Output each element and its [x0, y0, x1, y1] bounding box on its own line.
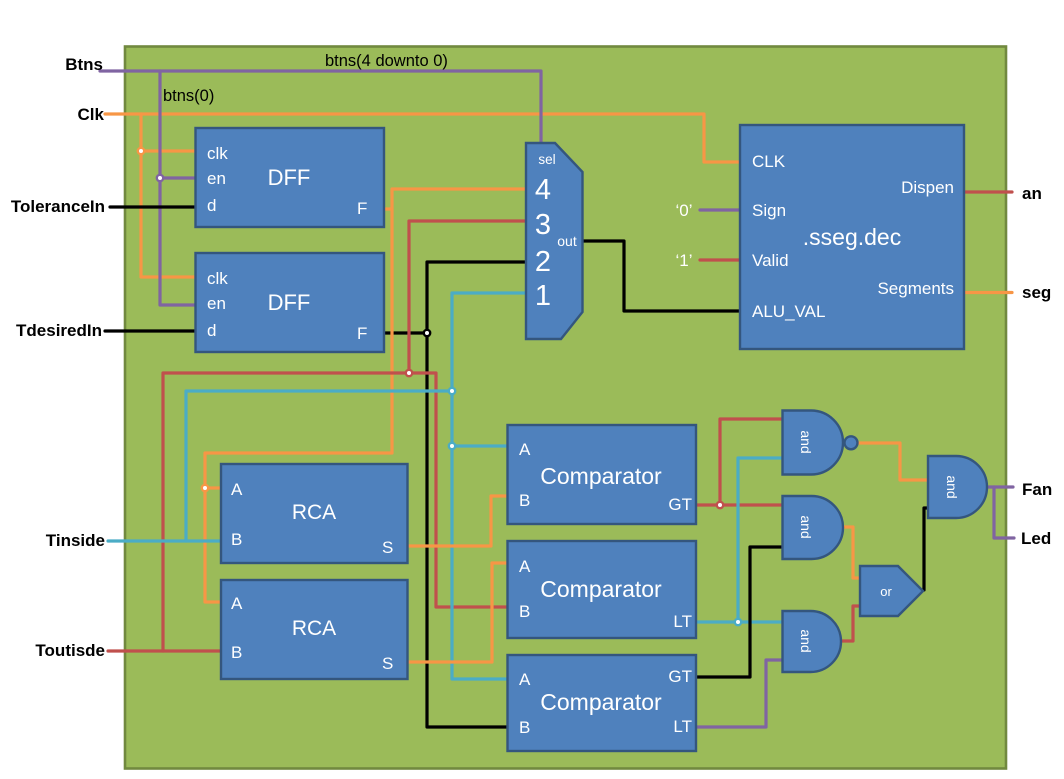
svg-text:Sign: Sign	[752, 201, 786, 220]
svg-text:S: S	[382, 654, 393, 673]
svg-text:btns(0): btns(0)	[163, 87, 214, 105]
svg-text:and: and	[798, 629, 814, 652]
or gate G4	[860, 566, 923, 616]
node junction comp2-lt	[735, 619, 741, 625]
svg-text:and: and	[798, 515, 814, 538]
svg-text:3: 3	[535, 209, 551, 241]
wire Toutisde net to RCA2.B, mux(3), Comparator2.B (red)	[108, 221, 526, 651]
node junction tinside-mux1	[449, 388, 455, 394]
svg-text:ToleranceIn: ToleranceIn	[11, 197, 105, 216]
svg-text:B: B	[231, 530, 242, 549]
node junction comp1-gt	[717, 502, 723, 508]
svg-text:LT: LT	[673, 717, 692, 736]
svg-text:Led: Led	[1021, 529, 1051, 548]
DFF U1	[196, 128, 385, 227]
wire ToleranceIn net (black)	[110, 205, 196, 208]
svg-text:GT: GT	[668, 495, 692, 514]
wire DFF1.F to mux(4) and RCA A inputs (orange)	[205, 189, 526, 602]
svg-text:Tinside: Tinside	[46, 531, 105, 550]
svg-text:GT: GT	[668, 667, 692, 686]
svg-text:Valid: Valid	[752, 251, 789, 270]
Comparator U8	[508, 541, 697, 638]
node junction en-dff1	[157, 175, 163, 181]
svg-text:d: d	[207, 321, 216, 340]
svg-text:Clk: Clk	[78, 105, 105, 124]
wire DFF2.F to mux(2) and Comparator3.B (black)	[384, 262, 526, 727]
svg-text:Comparator: Comparator	[540, 576, 662, 602]
svg-text:4: 4	[535, 174, 551, 206]
DFF U2	[196, 253, 385, 352]
and gate G2	[783, 496, 844, 559]
svg-text:1: 1	[535, 280, 551, 312]
and gate G3	[783, 611, 841, 672]
svg-text:Comparator: Comparator	[540, 463, 662, 489]
svg-text:A: A	[231, 480, 243, 499]
background panel	[125, 47, 1006, 769]
wire AND4 output to Fan and Led (purple)	[986, 487, 1014, 538]
svg-text:A: A	[519, 557, 531, 576]
svg-text:Segments: Segments	[877, 279, 954, 298]
svg-text:CLK: CLK	[752, 152, 786, 171]
wire '1' to Valid (red)	[700, 258, 740, 261]
svg-text:S: S	[382, 538, 393, 557]
svg-text:Comparator: Comparator	[540, 689, 662, 715]
wire OR output to AND4 (black)	[924, 508, 928, 590]
svg-text:or: or	[880, 584, 892, 599]
wire '0' to Sign (purple)	[700, 208, 740, 211]
svg-text:btns(4 downto 0): btns(4 downto 0)	[325, 52, 448, 70]
wire Btns net (purple)	[100, 71, 541, 305]
svg-text:‘1’: ‘1’	[675, 251, 692, 270]
RCA U6	[221, 580, 408, 679]
svg-text:en: en	[207, 169, 226, 188]
wire Comparator3.GT to AND2 (black)	[696, 547, 783, 677]
Comparator U9	[508, 655, 697, 751]
svg-text:clk: clk	[207, 269, 228, 288]
node junction comp1-a	[449, 443, 455, 449]
wire Tinside net to RCA1.B, mux(1), Comparator1.A, Comparator3.A (cyan)	[108, 293, 526, 679]
node junction clk-dff1	[138, 148, 144, 154]
wire AND3 output to OR (red)	[841, 606, 860, 641]
svg-text:DFF: DFF	[268, 165, 311, 190]
svg-text:Dispen: Dispen	[901, 178, 954, 197]
svg-text:DFF: DFF	[268, 290, 311, 315]
node junction rca1-a	[202, 485, 208, 491]
node junction toutisde-mux3	[406, 370, 412, 376]
wire NAND output to AND4 (orange)	[859, 443, 928, 480]
svg-text:F: F	[357, 199, 367, 218]
svg-text:d: d	[207, 196, 216, 215]
wire Comparator3.LT to AND3 (purple)	[696, 660, 783, 727]
RCA U5	[221, 464, 408, 563]
and gate G5	[928, 456, 987, 518]
svg-text:B: B	[231, 643, 242, 662]
svg-text:LT: LT	[673, 612, 692, 631]
svg-text:Fan: Fan	[1022, 480, 1052, 499]
svg-text:B: B	[519, 718, 530, 737]
svg-text:and: and	[798, 430, 814, 453]
svg-text:en: en	[207, 294, 226, 313]
svg-text:clk: clk	[207, 144, 228, 163]
svg-text:A: A	[231, 594, 243, 613]
svg-text:RCA: RCA	[292, 501, 336, 524]
wire mux out to ALU_VAL (black)	[583, 241, 740, 311]
svg-text:A: A	[519, 670, 531, 689]
svg-text:.sseg.dec: .sseg.dec	[803, 224, 901, 250]
svg-text:Toutisde: Toutisde	[35, 641, 105, 660]
node junction dff2-f	[424, 330, 430, 336]
svg-text:an: an	[1022, 184, 1042, 203]
svg-text:A: A	[519, 440, 531, 459]
svg-text:Btns: Btns	[65, 55, 103, 74]
Comparator U7	[508, 425, 697, 524]
wire Dispen to an (red)	[963, 190, 1012, 193]
svg-text:F: F	[357, 324, 367, 343]
svg-text:out: out	[557, 233, 577, 249]
wire AND2 output to OR (orange)	[843, 527, 860, 578]
svg-text:RCA: RCA	[292, 617, 336, 640]
svg-text:sel: sel	[538, 152, 555, 167]
svg-text:B: B	[519, 491, 530, 510]
svg-text:seg: seg	[1022, 283, 1051, 302]
wire TdesiredIn net (black)	[105, 329, 196, 332]
wire RCA2.S to Comparator2.A (orange)	[408, 563, 508, 662]
wire Segments to seg (orange)	[963, 291, 1012, 294]
nand gate G1	[783, 411, 858, 475]
wire Comparator1.GT to NAND and AND2 (red)	[696, 419, 783, 505]
svg-text:‘0’: ‘0’	[675, 201, 692, 220]
svg-text:2: 2	[535, 246, 551, 278]
svg-text:B: B	[519, 602, 530, 621]
wire Comparator2.LT to NAND and AND3 (cyan)	[696, 458, 783, 622]
svg-text:ALU_VAL: ALU_VAL	[752, 302, 825, 321]
wire RCA1.S to Comparator1.B (orange)	[408, 496, 508, 546]
svg-text:TdesiredIn: TdesiredIn	[16, 321, 102, 340]
wire Clk net (orange)	[105, 114, 740, 277]
seven segment decoder U4 .sseg.dec	[740, 125, 964, 349]
svg-text:and: and	[944, 475, 960, 498]
multiplexer U3	[526, 143, 583, 339]
